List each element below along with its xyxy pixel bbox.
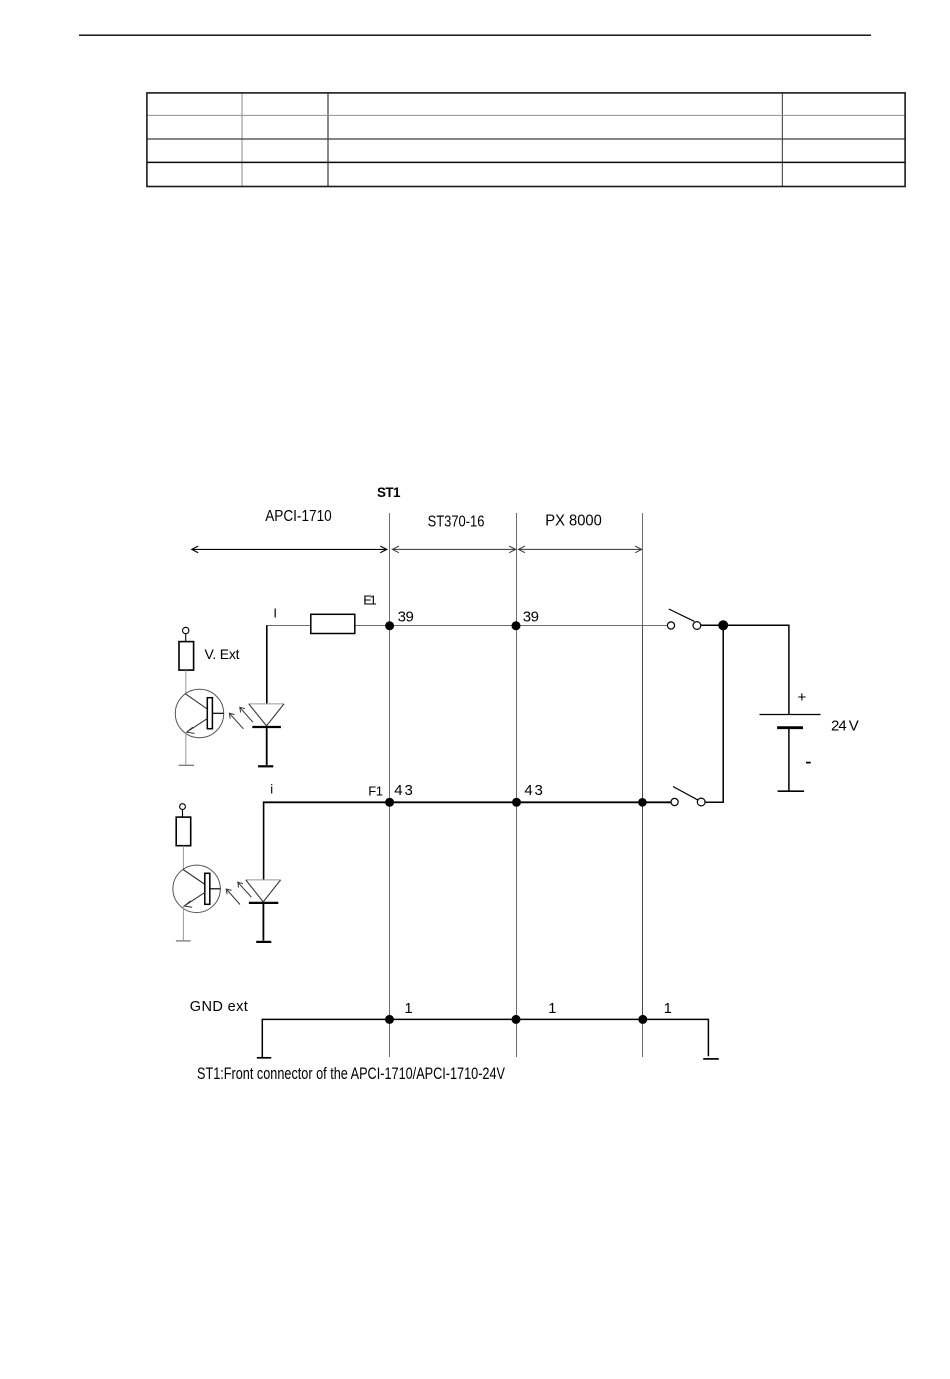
battery end bar xyxy=(778,790,805,792)
battery B1 24V xyxy=(760,689,859,791)
table grid xyxy=(147,93,905,187)
node 39 junction on ST1 xyxy=(385,621,394,630)
connector line ST370-16 boundary (backbone 2) xyxy=(516,513,518,1057)
wire battery + drop xyxy=(788,625,790,715)
ground (D1 cathode) xyxy=(258,765,273,767)
ground (Q2 emitter) xyxy=(176,940,191,942)
svg-text:E1: E1 xyxy=(363,593,376,608)
svg-text:I: I xyxy=(273,605,277,620)
wire battery - lead xyxy=(788,729,790,791)
terminal circle (supply, row 2) xyxy=(180,804,186,810)
svg-text:1: 1 xyxy=(405,1001,413,1017)
label - xyxy=(806,762,811,764)
header rule xyxy=(79,34,871,36)
node 1 junction on ST1 xyxy=(385,1015,394,1024)
svg-text:39: 39 xyxy=(523,609,539,626)
node 43 junction on ST370-16 xyxy=(512,798,521,807)
ground (right end) xyxy=(703,1058,719,1060)
battery plate long (+) xyxy=(760,714,821,716)
svg-text:ST1: ST1 xyxy=(377,485,401,500)
wire GND left drop xyxy=(261,1019,263,1057)
LED D1 (row 1 input diode) xyxy=(249,704,284,765)
wire resistor R3 to phototransistor Q2 xyxy=(182,846,184,870)
ground (left end) xyxy=(257,1057,272,1059)
svg-text:24 V: 24 V xyxy=(831,717,859,734)
phototransistor Q2 xyxy=(173,865,221,912)
ground (D2 cathode) xyxy=(256,941,271,943)
svg-text:1: 1 xyxy=(664,1001,672,1017)
wire row1 horizontal (node E1 to switch, gray) xyxy=(267,625,668,627)
svg-text:i: i xyxy=(270,781,273,796)
terminal circle (V.Ext supply, row 1) xyxy=(183,627,189,633)
ground (Q1 emitter) xyxy=(179,764,195,766)
connector line ST1 (net 39/43/1 backbone 1) xyxy=(389,513,391,1057)
wire Q1 emitter to ground xyxy=(185,733,187,765)
wire row1 corner down to LED D1 xyxy=(266,625,268,704)
svg-text:43: 43 xyxy=(394,782,413,799)
svg-text:43: 43 xyxy=(524,782,543,799)
wire terminal to resistor xyxy=(185,634,187,642)
dimension arrow APCI-1710 xyxy=(192,546,387,553)
connector line PX 8000 boundary (backbone 3) xyxy=(642,513,644,1057)
wire terminal to resistor R3 xyxy=(182,810,184,818)
node 1 junction on PX8000 xyxy=(638,1015,647,1024)
svg-text:ST370-16: ST370-16 xyxy=(428,513,485,530)
svg-text:APCI-1710: APCI-1710 xyxy=(265,508,332,525)
wire junction down to switch S2 xyxy=(705,625,723,802)
svg-text:F1: F1 xyxy=(368,783,383,798)
switch S2 (bottom) xyxy=(671,787,705,806)
svg-text:V. Ext: V. Ext xyxy=(205,646,240,662)
wire switch S1 to battery + xyxy=(701,624,789,626)
wire GND ext bus xyxy=(262,1018,708,1020)
node 43 junction on ST1 xyxy=(385,798,394,807)
wire row2 horizontal (node F1 to switch S2, black) xyxy=(264,801,675,803)
wire row2 corner down to LED D2 xyxy=(263,801,265,880)
resistor R2 V.Ext (row 1 bias) xyxy=(179,642,194,671)
svg-text:39: 39 xyxy=(398,609,414,626)
svg-text:GND ext: GND ext xyxy=(190,999,248,1015)
node junction on PX8000 line row2 xyxy=(638,798,647,807)
LED D2 (row 2 input diode) xyxy=(246,880,281,941)
light arrows D1 to Q1 xyxy=(229,707,253,729)
dimension arrow ST370-16 xyxy=(392,546,515,553)
wire (backbone 3 darker segment) xyxy=(642,625,644,1019)
svg-text:+: + xyxy=(798,689,807,706)
resistor R1 (series input) xyxy=(311,614,355,633)
wire Q2 emitter to ground xyxy=(182,906,184,940)
node junction at 723 xyxy=(718,620,728,630)
node 1 junction on ST370-16 xyxy=(512,1015,521,1024)
dimension arrow PX 8000 xyxy=(519,546,642,553)
wire GND right drop xyxy=(707,1019,709,1057)
wire resistor to phototransistor Q1 xyxy=(185,670,187,694)
svg-text:1: 1 xyxy=(548,1001,556,1017)
svg-text:ST1:Front connector of the APC: ST1:Front connector of the APCI-1710/APC… xyxy=(197,1064,505,1083)
resistor R3 (row 2 bias) xyxy=(176,817,191,846)
svg-text:PX 8000: PX 8000 xyxy=(545,512,602,529)
switch S1 (top) xyxy=(667,609,700,629)
battery plate short (-) xyxy=(777,726,803,729)
node 39 junction on ST370-16 xyxy=(512,621,521,630)
light arrows D2 to Q2 xyxy=(226,882,251,904)
phototransistor Q1 xyxy=(175,689,223,737)
